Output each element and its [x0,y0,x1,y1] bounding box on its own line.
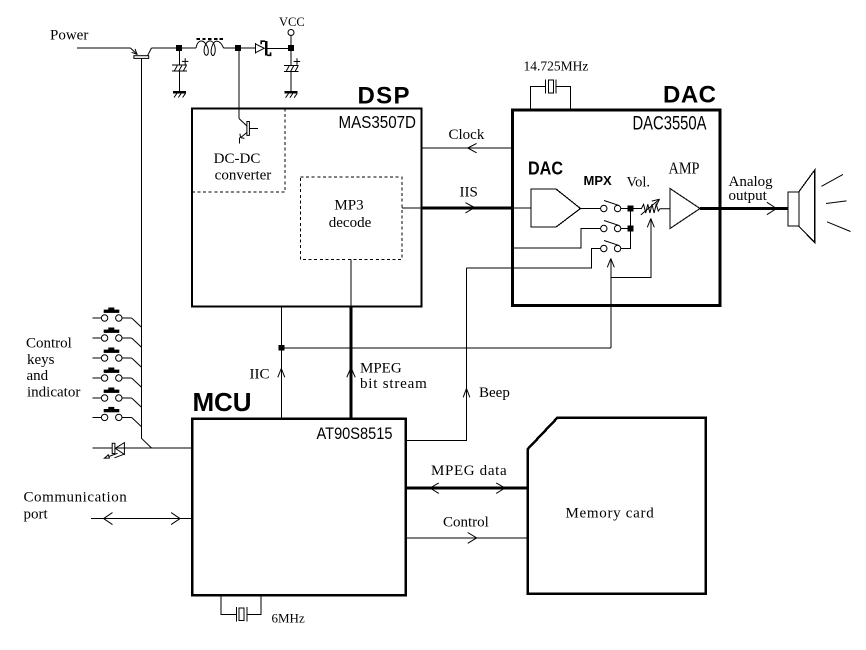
push button key 1 [92,308,141,327]
svg-text:AMP: AMP [669,158,700,177]
transistor Q1 (PNP pass transistor) [131,48,152,58]
wire clock DSP to DAC [422,147,513,149]
arrow comm right (points right) [171,513,180,525]
push button key 5 [92,388,141,407]
amplifier AMP triangle [670,189,700,229]
svg-text:14.725MHz: 14.725MHz [524,59,589,74]
svg-text:Memory card: Memory card [566,506,655,522]
wire MPEG bit stream inside DSP [350,260,352,307]
DSP block box [192,109,422,307]
crystal X2 wires [221,596,261,615]
svg-text:decode: decode [329,215,372,231]
arrow comm left (points left) [104,513,113,525]
wire DAC out to switch SW1 [581,208,601,210]
wire IIS inside DAC to converter [513,207,531,209]
wire Q1 base bus down left side [141,58,143,438]
node B junction [236,46,241,51]
svg-text:MPEG: MPEG [360,360,402,376]
svg-text:and: and [27,368,49,384]
wire D1 cathode to node C [267,47,288,49]
arrow MPEG data right (points right) [496,483,505,494]
node E junction [628,226,633,231]
svg-text:Control: Control [26,335,72,351]
svg-text:keys: keys [27,352,55,368]
push button key 3 [92,348,141,367]
switch SW3 [601,241,621,252]
ground under C1 [173,92,186,98]
crystal X1 wires [531,87,571,109]
push button key 2 [92,328,141,347]
arrow analog output (points right) [767,202,777,214]
svg-text:6MHz: 6MHz [272,611,305,626]
switch SW2 [601,221,621,232]
node F junction on IIC [279,345,284,350]
wire C1 to ground [179,71,181,91]
MCU block box [192,419,406,596]
wire VCC to node C [290,36,292,46]
speaker driver [788,192,799,226]
svg-text:VCC: VCC [279,15,305,29]
arrow Beep (points up) [463,389,470,398]
wire Beep MCU to SW3 [406,268,467,441]
wire L1 to node B [224,47,236,49]
svg-text:MCU: MCU [193,387,252,417]
wire Q1 collector to node A [152,47,177,49]
svg-text:DC-DC: DC-DC [214,151,261,167]
svg-text:output: output [729,188,768,204]
speaker sound line 2 [826,201,847,204]
wire IIC DSP to MCU [280,307,282,419]
svg-text:DAC3550A: DAC3550A [633,114,707,135]
wire key bus to LED line [142,438,152,448]
svg-text:DAC: DAC [528,159,563,179]
svg-text:MAS3507D: MAS3507D [339,112,417,132]
DC-DC converter dashed box [192,109,285,193]
svg-text:Power: Power [50,28,88,44]
wire MPEG data thick MCU to card [406,486,528,489]
arrow MPEG data left (points left) [430,483,439,494]
wire SW3 input from beep line [467,249,601,269]
svg-text:Vol.: Vol. [627,175,651,191]
node D junction [628,206,633,211]
svg-text:AT90S8515: AT90S8515 [317,424,393,443]
wire IIS thick DSP to DAC [422,207,514,210]
svg-text:Clock: Clock [449,127,485,143]
svg-text:port: port [24,507,49,523]
wire SW2 input from DAC edge [513,229,601,249]
svg-text:MP3: MP3 [334,198,363,214]
arrow IIC (points up) [278,369,285,378]
crystal X2 (6MHz) [235,607,237,621]
wire SW3 output up to node D bus [621,211,631,249]
wire Control MCU to card [406,537,528,539]
volume control symbol (variable attenuator) [633,199,670,215]
wire MPEG bit stream thick DSP to MCU [350,307,353,419]
svg-text:IIS: IIS [460,184,478,200]
memory card box [528,418,706,594]
wire LED line to MCU [92,447,192,449]
svg-text:Communication: Communication [24,490,128,506]
wire C2 to ground [290,72,292,91]
svg-text:DAC: DAC [663,82,716,109]
wire AMP output (analog) thick [700,207,788,210]
crystal X1 [545,80,547,94]
svg-text:MPEG data: MPEG data [431,463,507,479]
svg-text:converter: converter [215,167,272,183]
wire MPX control arrow [607,259,614,348]
wire node A to L1 [182,47,197,49]
wire Vol control arrow [611,219,655,278]
svg-text:MPX: MPX [584,173,613,188]
transistor Q2 (DC-DC switch) [239,119,258,144]
wire SW1 to node D [621,208,628,210]
arrow Control (points right) [468,533,477,544]
push button key 4 [92,368,141,387]
arrow IIS (points right) [466,203,475,213]
wire IIS from MP3 decode to DSP edge [402,207,422,209]
speaker sound line 3 [827,222,851,232]
wire node A down to C1 [179,51,181,66]
LED indicator D2 [104,443,124,459]
node A junction [177,46,182,51]
switch SW1 [601,201,621,212]
svg-text:IIC: IIC [250,367,270,383]
svg-text:DSP: DSP [358,83,410,110]
wire control tap to MPX and Vol [281,347,611,349]
svg-text:indicator: indicator [27,385,80,401]
wire node B down to Q2 [238,51,240,119]
arrow MPEG bit stream (points up) [347,368,355,378]
inductor L1 core (dashed) [197,38,225,40]
svg-text:Beep: Beep [479,385,510,401]
node C junction [289,46,294,51]
capacitor C1 (polarized) [172,58,188,71]
inductor L1 winding [196,41,224,56]
wire power input [77,47,131,49]
diode D1 (Schottky) [256,41,271,55]
svg-text:bit stream: bit stream [360,376,428,392]
push button key 6 [92,407,141,426]
capacitor C2 (polarized) [284,58,300,71]
ground under C2 [285,92,298,98]
wire node B to D1 anode [241,47,256,49]
wire communication port [91,518,192,520]
DAC block box [513,110,721,306]
arrow clock (points left) [468,143,477,152]
svg-text:Control: Control [443,514,489,530]
speaker cone [799,170,815,243]
speaker sound line 1 [822,174,844,186]
wire node C down to C2 [290,51,292,66]
MP3 decode dashed box [301,177,403,260]
wire SW2 to node E [621,228,628,230]
DAC converter symbol [531,189,581,227]
